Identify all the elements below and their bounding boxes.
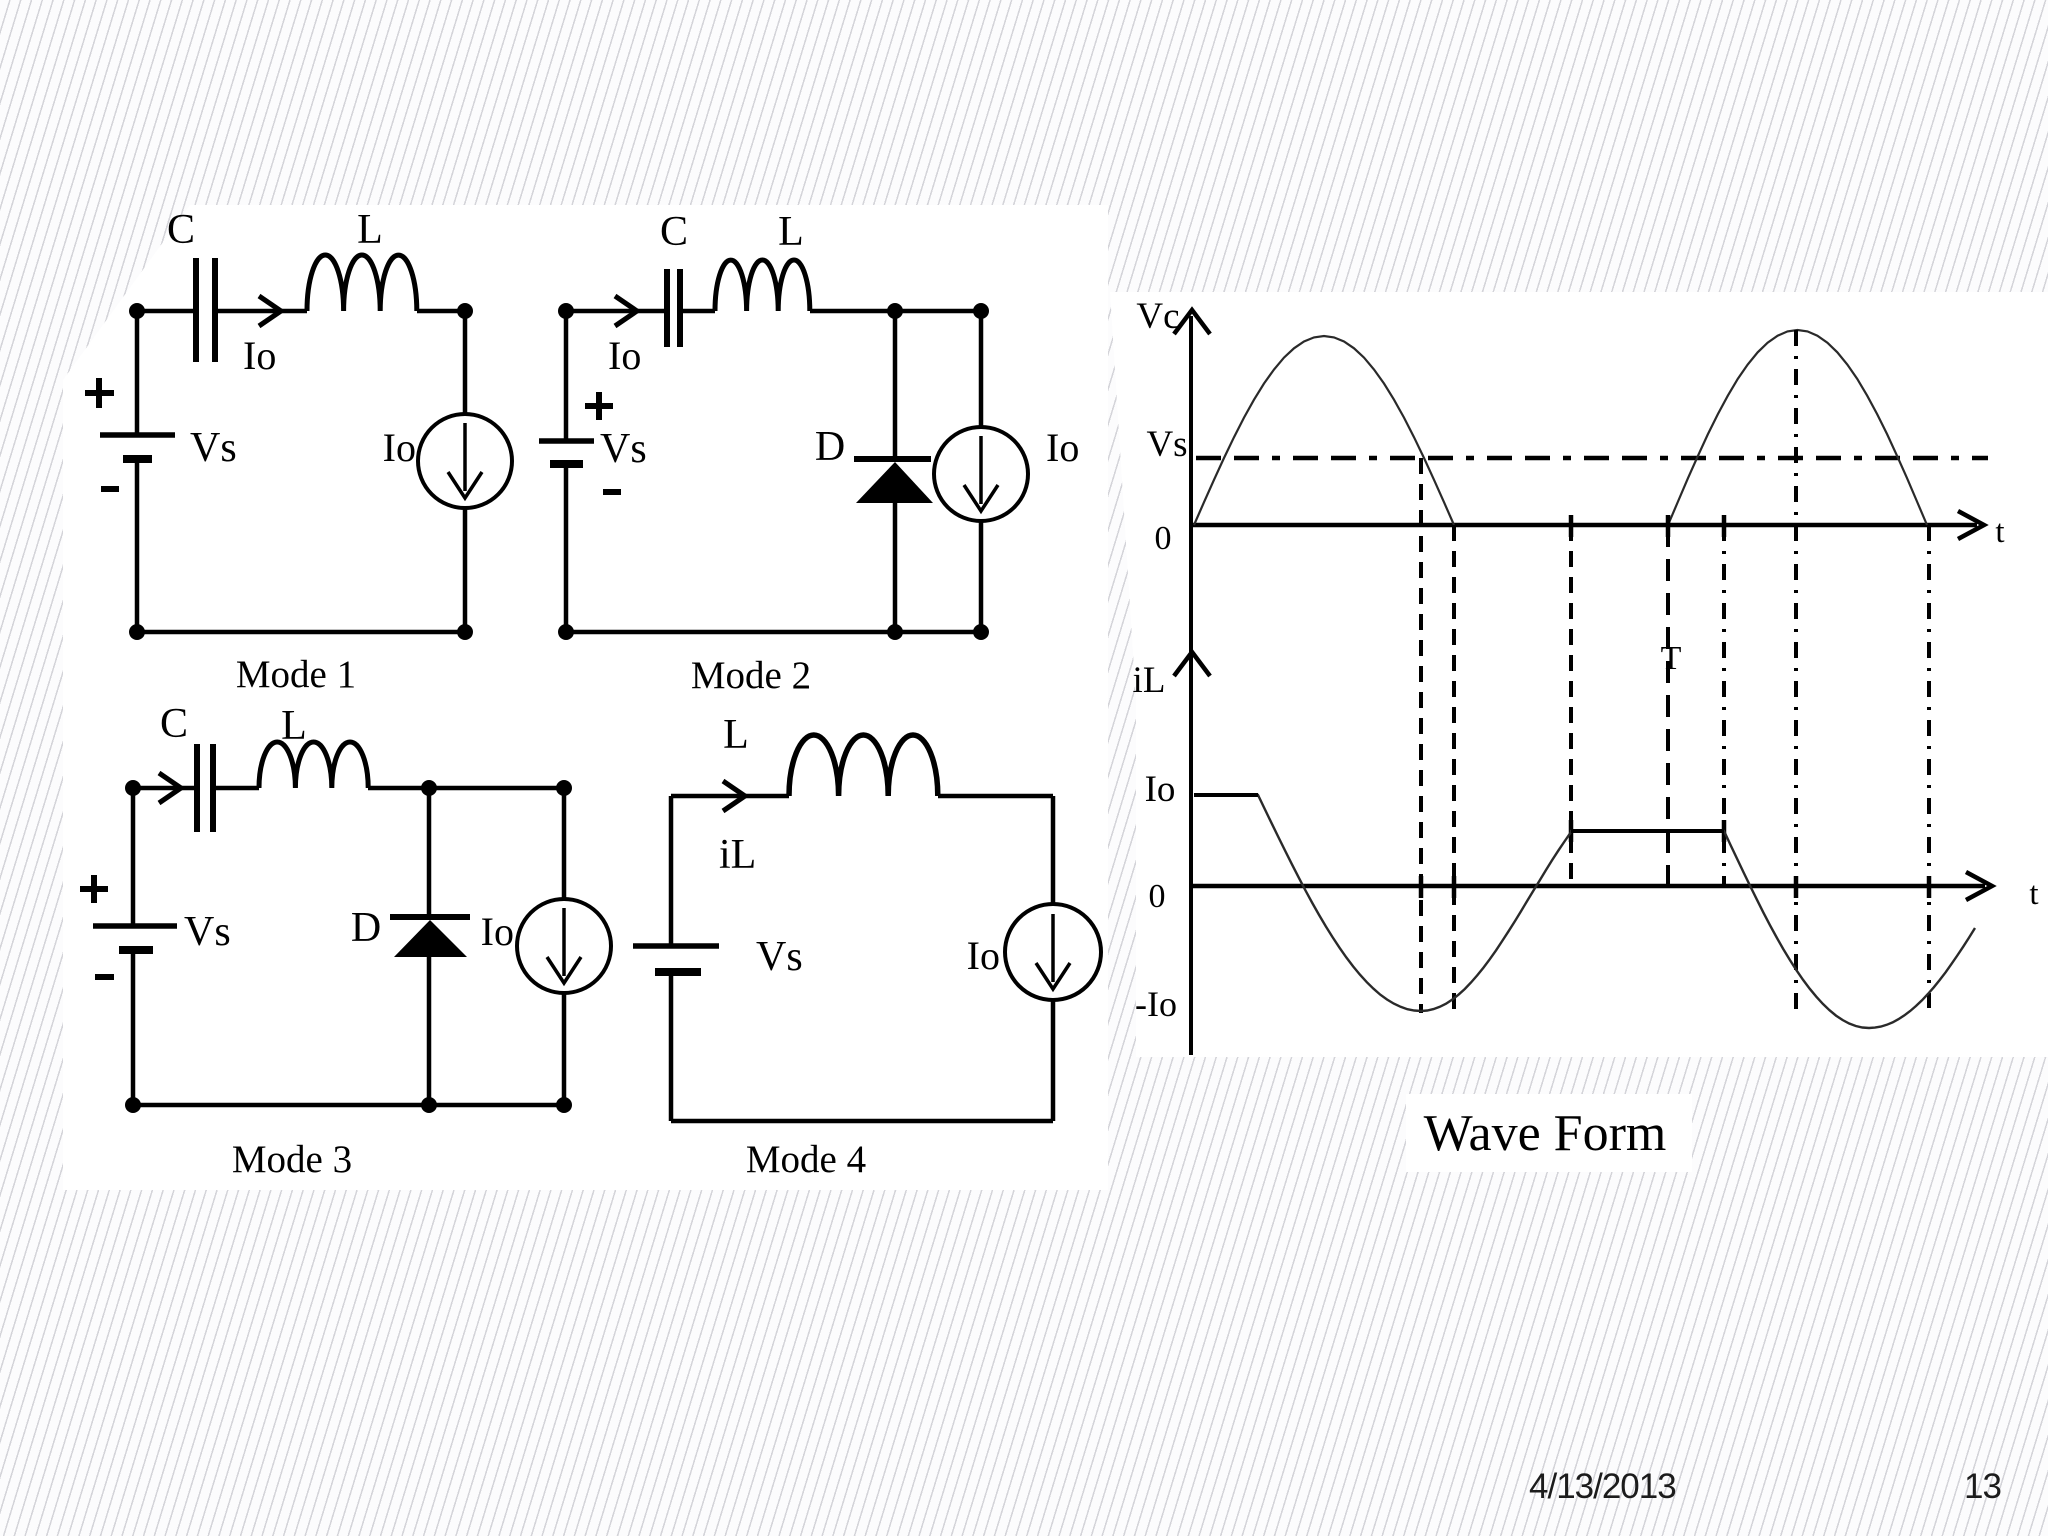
svg-text:T: T bbox=[1661, 640, 1682, 677]
inductor L (Mode 1) bbox=[307, 255, 417, 311]
dashed marker line x=1571 bbox=[1569, 525, 1573, 886]
wire: Mode 4 left segment bbox=[669, 796, 674, 1121]
wire: Mode 3 right segment bbox=[562, 788, 567, 1105]
left circuits panel (white) bbox=[63, 205, 1108, 1190]
svg-text:Vs: Vs bbox=[600, 426, 647, 472]
dashed marker line x=1668 (period T) bbox=[1666, 525, 1670, 886]
label + (Mode 2) bbox=[585, 392, 613, 420]
current arrow Io (Mode 1) bbox=[259, 296, 281, 326]
node: Mode 2 top-right junction bbox=[973, 303, 989, 319]
Vc curve hump 2 bbox=[1668, 330, 1927, 525]
svg-text:iL: iL bbox=[1133, 660, 1166, 701]
axis tick marks at marker crossings bbox=[1421, 515, 1929, 898]
node: Mode 3 diode bottom junction bbox=[421, 1097, 437, 1113]
dashed marker line x=1724 bbox=[1722, 525, 1726, 886]
dashed marker line x=1454 bbox=[1452, 525, 1456, 1013]
svg-text:Vs: Vs bbox=[190, 425, 237, 471]
svg-text:L: L bbox=[723, 712, 749, 758]
wire: Mode 2 left segment bbox=[564, 311, 569, 632]
current arrow Io (Mode 2) bbox=[615, 296, 637, 326]
inductor L (Mode 2) bbox=[715, 260, 810, 311]
node: Mode 2 diode bottom junction bbox=[887, 624, 903, 640]
wire: Mode 2 bottom segment bbox=[566, 630, 981, 635]
label + (Mode 1) bbox=[85, 378, 114, 408]
svg-text:L: L bbox=[778, 209, 804, 255]
label minus (Mode 2) bbox=[603, 489, 621, 495]
svg-text:Mode 3: Mode 3 bbox=[232, 1138, 352, 1181]
node: Mode 3 bottom-right junction bbox=[556, 1097, 572, 1113]
dashed marker line x=1421 bbox=[1419, 458, 1423, 1013]
svg-text:C: C bbox=[160, 701, 188, 747]
diode D (Mode 3) bbox=[390, 917, 470, 957]
iL curve bbox=[1194, 795, 1975, 1028]
capacitor C (Mode 3) bbox=[197, 744, 213, 832]
svg-text:L: L bbox=[357, 207, 383, 253]
svg-text:Mode 2: Mode 2 bbox=[691, 654, 811, 697]
wire: Mode 1 right segment bbox=[463, 311, 468, 632]
svg-text:Vs: Vs bbox=[184, 909, 231, 955]
svg-text:Mode 1: Mode 1 bbox=[236, 653, 356, 696]
current source Io (Mode 1) bbox=[418, 414, 512, 508]
svg-text:C: C bbox=[660, 209, 688, 255]
node: Mode 1 bottom-left junction bbox=[129, 624, 145, 640]
wire: Mode 3 diode branch bbox=[427, 788, 432, 1105]
Vs dashed level line bbox=[1196, 456, 1988, 461]
svg-text:Wave Form: Wave Form bbox=[1424, 1105, 1667, 1162]
label minus (Mode 3) bbox=[95, 974, 114, 980]
svg-text:Io: Io bbox=[481, 909, 514, 954]
svg-text:Io: Io bbox=[967, 933, 1000, 978]
diode D (Mode 2) bbox=[854, 459, 933, 503]
current arrow iL (Mode 4) bbox=[723, 781, 745, 811]
node: Mode 3 bottom-left junction bbox=[125, 1097, 141, 1113]
label + (Mode 3) bbox=[80, 875, 108, 903]
node: Mode 2 diode branch junction bbox=[887, 303, 903, 319]
wire: Mode 4 right segment bbox=[1051, 796, 1056, 1121]
battery Vs (Mode 1) bbox=[100, 435, 175, 459]
svg-text:0: 0 bbox=[1149, 878, 1166, 915]
wire: Mode 3 bottom segment bbox=[133, 1103, 564, 1108]
wire: Mode 4 bottom segment bbox=[671, 1119, 1053, 1124]
capacitor C (Mode 2) bbox=[667, 269, 680, 347]
svg-text:Io: Io bbox=[1145, 769, 1176, 810]
node: Mode 3 top-right junction bbox=[556, 780, 572, 796]
current source Io (Mode 3) bbox=[517, 899, 611, 993]
dashed marker line x=1929 bbox=[1927, 525, 1931, 1008]
node: Mode 1 bottom-right junction bbox=[457, 624, 473, 640]
svg-text:Io: Io bbox=[608, 333, 641, 378]
iL axis arrowhead bbox=[1174, 652, 1210, 676]
wire: Mode 2 right segment bbox=[979, 311, 984, 632]
dashed marker line x=1796 (hump 2 peak) bbox=[1794, 330, 1798, 1013]
waveform vertical axis (Vc and iL) bbox=[1189, 316, 1193, 1055]
svg-text:t: t bbox=[1995, 514, 2004, 550]
svg-text:iL: iL bbox=[719, 832, 756, 878]
current source Io (Mode 2) bbox=[934, 427, 1028, 521]
wire: Mode 4 top segment bbox=[671, 794, 1053, 799]
Vc axis arrowhead bbox=[1174, 310, 1210, 334]
slide date bbox=[1529, 1467, 1676, 1507]
iL flat segment emphasis bbox=[1194, 795, 1724, 831]
svg-text:D: D bbox=[815, 424, 845, 470]
node: Mode 2 bottom-left junction bbox=[558, 624, 574, 640]
wire: Mode 2 top segment bbox=[566, 309, 981, 314]
wire: Mode 1 bottom segment bbox=[137, 630, 465, 635]
battery Vs (Mode 3) bbox=[93, 926, 177, 950]
svg-text:Vs: Vs bbox=[756, 934, 803, 980]
node: Mode 2 bottom-right junction bbox=[973, 624, 989, 640]
svg-text:0: 0 bbox=[1155, 520, 1172, 557]
Vc time axis bbox=[1191, 511, 1984, 539]
wave form caption panel (white) bbox=[1406, 1094, 1692, 1172]
wire: Mode 3 top segment bbox=[133, 786, 564, 791]
svg-text:Io: Io bbox=[383, 425, 416, 470]
svg-text:Io: Io bbox=[1046, 425, 1079, 470]
node: Mode 2 top-left junction bbox=[558, 303, 574, 319]
slide page number bbox=[1964, 1467, 2001, 1507]
node: Mode 3 diode branch junction bbox=[421, 780, 437, 796]
battery Vs (Mode 4) bbox=[633, 946, 719, 972]
capacitor C (Mode 1) bbox=[196, 258, 215, 362]
current source Io (Mode 4) bbox=[1005, 904, 1101, 1000]
current arrow (Mode 3) bbox=[159, 773, 181, 803]
svg-text:Vs: Vs bbox=[1146, 424, 1187, 465]
node: Mode 1 top-left junction bbox=[129, 303, 145, 319]
svg-text:Mode 4: Mode 4 bbox=[746, 1138, 866, 1181]
inductor L (Mode 3) bbox=[259, 742, 368, 788]
iL time axis bbox=[1191, 872, 1992, 900]
svg-text:Vc: Vc bbox=[1136, 296, 1179, 337]
inductor L (Mode 4) bbox=[789, 735, 938, 796]
battery Vs (Mode 2) bbox=[539, 441, 594, 464]
svg-text:D: D bbox=[351, 905, 381, 951]
node: Mode 1 top-right junction bbox=[457, 303, 473, 319]
right waveform panel (white) bbox=[1110, 292, 2048, 1057]
wire: Mode 1 top segment bbox=[137, 309, 465, 314]
svg-text:-Io: -Io bbox=[1135, 984, 1177, 1024]
node: Mode 3 top-left junction bbox=[125, 780, 141, 796]
wire: Mode 1 left segment bbox=[135, 311, 140, 632]
svg-text:Io: Io bbox=[243, 333, 276, 378]
svg-text:L: L bbox=[281, 703, 307, 749]
label minus (Mode 1) bbox=[101, 486, 119, 492]
Vc curve hump 1 bbox=[1194, 336, 1454, 525]
wire: Mode 3 left segment bbox=[131, 788, 136, 1105]
svg-text:t: t bbox=[2029, 876, 2038, 912]
svg-text:C: C bbox=[167, 207, 195, 253]
wire: Mode 2 diode branch bbox=[893, 311, 898, 632]
